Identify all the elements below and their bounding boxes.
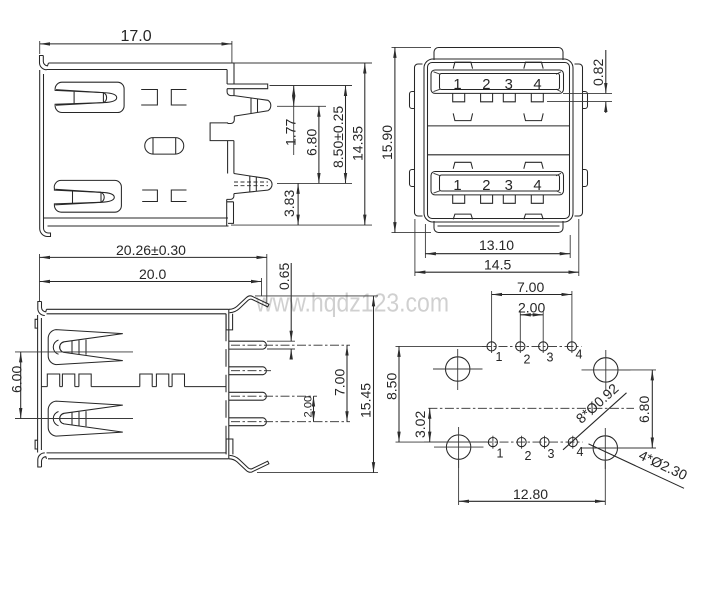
corner tab top [226,314,233,330]
dimension 0.65 [267,263,295,359]
svg-text:4: 4 [533,77,541,93]
center stadium slot [145,138,184,155]
shell left outer edge [39,70,41,216]
svg-text:3: 3 [547,351,554,365]
svg-text:15.90: 15.90 [379,125,395,160]
right wall [226,309,229,459]
svg-text:6.80: 6.80 [304,129,320,156]
svg-text:7.00: 7.00 [517,279,544,295]
dimension 15.45 [255,296,378,473]
top-left corner curl [40,56,49,70]
lower tongue inner [440,175,560,191]
svg-text:20.0: 20.0 [139,266,166,282]
upper tongue outer [431,70,564,93]
svg-text:2: 2 [525,449,532,463]
body top inner edge [47,313,227,315]
latch dents row1 [453,62,543,68]
svg-text:1.77: 1.77 [283,119,299,146]
wall between tab and finger [227,89,234,96]
svg-text:3.02: 3.02 [412,411,428,438]
dimension 7.00 view3 [332,345,348,422]
shell bottom inner edge [44,217,229,219]
svg-text:15.45: 15.45 [358,383,374,418]
svg-text:17.0: 17.0 [121,28,152,45]
svg-text:8.50±0.25: 8.50±0.25 [330,106,346,168]
svg-text:12.80: 12.80 [513,486,548,502]
latch dents row3 [453,162,543,169]
wall step with notch [210,116,234,173]
svg-text:2: 2 [524,353,531,367]
svg-text:1: 1 [453,77,461,93]
left edge bumps [35,319,38,449]
left tabs [410,92,415,187]
shell outer [424,59,573,222]
bracket pair lower [142,190,186,202]
svg-text:6.00: 6.00 [9,366,25,393]
dimension 20.0 [40,266,262,296]
dimension 8.50±0.25 [330,86,346,184]
left side plate [415,64,423,216]
contact finger lower [234,174,272,194]
extension lines right of view1 [231,63,372,225]
bottom cap inner line [438,225,560,227]
upper pin numbers [453,77,541,93]
corner tab bottom [226,439,233,454]
latch dents row4 [453,214,543,219]
dimension 15.90 [379,47,431,232]
leader 4*Ø2.30 [589,444,690,488]
svg-text:1: 1 [496,350,503,364]
pin row centrelines [482,346,583,442]
mount hole bottom-right [581,428,630,469]
latch spring bottom [48,401,123,436]
latch dents row2 [453,113,543,120]
dimension 2.00 view3 [303,396,315,422]
dimension 6.00 [9,352,134,419]
svg-text:14.5: 14.5 [484,257,511,273]
latch spring lower [54,180,121,212]
svg-text:4: 4 [533,178,541,194]
lower pin numbers [453,178,541,194]
dimension 20.26±0.30 [40,242,267,303]
lower contacts [453,195,544,203]
left outer edge [37,315,39,453]
svg-text:2.00: 2.00 [303,396,315,418]
svg-text:www.hqdz123.com: www.hqdz123.com [255,290,449,318]
mount leg top [229,296,269,313]
svg-text:7.00: 7.00 [332,369,348,396]
castellated strip [41,374,226,387]
svg-text:6.80: 6.80 [636,396,652,423]
dimension 6.80 view4 [619,370,656,448]
mount hole top-right [582,350,631,391]
svg-text:1: 1 [453,178,461,194]
wall bottom section [227,194,234,226]
lower tongue outer [431,172,564,195]
dimension 14.35 [350,63,366,225]
svg-text:0.65: 0.65 [276,263,292,290]
mount hole top-left [433,349,483,390]
svg-text:4: 4 [576,348,583,362]
pin 4 [229,418,267,426]
bottom-left curl [38,453,47,467]
latch spring top [48,330,123,365]
upper tongue chamfers [434,72,562,92]
shell bottom outer edge [48,225,229,227]
dimension 14.5 [415,219,579,276]
svg-text:3: 3 [548,447,555,461]
svg-text:2: 2 [482,77,490,93]
dimension 8.50 view4 [384,346,488,442]
leader 8*Ø0.92 [563,380,627,450]
body bottom inner edge [47,452,227,454]
svg-text:2: 2 [482,178,490,194]
shell top outer edge [49,62,235,64]
bottom cap [434,221,563,233]
pin holes top row [487,342,577,351]
svg-text:14.35: 14.35 [350,126,366,161]
right wall upper section [227,63,234,84]
latch spring upper [55,82,124,112]
bottom-left corner curl [40,215,51,237]
dimension 3.83 [281,183,298,225]
flat tab pin [227,84,268,89]
svg-text:3: 3 [505,178,513,194]
svg-text:1: 1 [497,447,504,461]
svg-text:0.82: 0.82 [590,59,606,86]
upper contacts [453,93,544,101]
svg-text:3.83: 3.83 [281,190,297,217]
centreline horizontal [428,407,634,409]
shell left inner edge [43,74,45,215]
dimension 3.02 view4 [412,408,487,442]
dimension 13.10 [425,224,570,258]
pin labels bottom row [497,445,584,463]
svg-text:13.10: 13.10 [479,237,514,253]
dimension 6.80 [304,106,320,183]
svg-text:8.50: 8.50 [384,373,400,400]
dimension 2.00 view4 [518,300,545,341]
body bottom outer edge [48,458,229,460]
pin 2 [229,367,267,375]
mount leg bottom [229,455,269,472]
shell inner [428,63,570,219]
dimension 12.80 [459,460,606,505]
body top outer edge [47,308,229,310]
svg-text:20.26±0.30: 20.26±0.30 [116,242,186,258]
left inner edge [40,318,42,450]
pin 1 [229,341,267,349]
dimension 1.77 [283,86,299,156]
top-left curl [38,302,47,316]
pin 3 [229,392,267,400]
pin labels top row [496,348,583,367]
dimension 17.0 [40,28,232,64]
hidden lines through lower finger [234,182,268,186]
svg-text:3: 3 [505,77,513,93]
pin holes bottom row [488,438,577,447]
dimension 7.00 view4 [492,279,572,340]
shell top inner edge [47,69,228,71]
bracket pair upper [141,90,186,106]
svg-text:4: 4 [577,445,584,459]
right side plate [575,64,583,216]
upper tongue inner [440,74,560,90]
contact finger upper [234,96,271,117]
top cap [434,48,563,61]
lower tongue chamfers [434,173,562,193]
mid divider lines [428,126,570,155]
right tabs [583,92,588,187]
svg-text:2.00: 2.00 [518,300,545,316]
mount hole bottom-left [434,427,484,468]
dimension 0.82 [547,50,612,113]
